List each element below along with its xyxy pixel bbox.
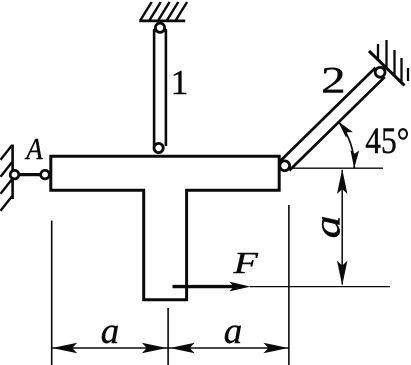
arc arrowhead lower: [350, 150, 359, 168]
svg-text:a: a: [224, 311, 243, 352]
left wall line: [11, 145, 14, 200]
bottom dimension line: [52, 347, 289, 349]
svg-text:F: F: [232, 245, 259, 280]
vertical dim arrow down: [337, 261, 347, 286]
extension line center: [167, 308, 169, 365]
45 degree arc: [338, 121, 354, 168]
svg-text:a: a: [101, 311, 120, 352]
svg-text:2: 2: [321, 61, 346, 102]
link 1 bottom pin: [154, 143, 163, 152]
T-shaped body: [51, 156, 279, 300]
link 2 shaft: [280, 68, 385, 171]
link 2 top pin: [375, 67, 385, 77]
bottom dim arrow center-right: [170, 343, 195, 353]
bottom dim arrow far-right: [263, 343, 288, 353]
pin A body circle: [41, 170, 50, 179]
extension line left: [51, 221, 53, 365]
force F arrow: [173, 285, 239, 288]
link 1 shaft: [154, 29, 166, 146]
bottom dim arrow center-left: [142, 343, 167, 353]
vertical dimension a line: [341, 170, 343, 285]
bottom reference line: [250, 286, 390, 288]
link A bar: [15, 173, 44, 176]
top reference line: [290, 167, 383, 169]
vertical dim arrow up: [337, 169, 347, 194]
link 1 top pin: [155, 23, 164, 32]
svg-text:1: 1: [171, 63, 189, 102]
bottom dim arrow far-left: [52, 343, 77, 353]
inclined wall hatch: [378, 40, 408, 83]
svg-text:a: a: [307, 215, 348, 238]
svg-text:45°: 45°: [365, 121, 409, 162]
pin A wall circle: [10, 170, 19, 179]
arc arrowhead upper: [338, 121, 353, 138]
ceiling line: [139, 19, 185, 22]
svg-text:A: A: [24, 131, 43, 166]
ceiling hatch: [140, 2, 187, 21]
extension line right: [288, 205, 290, 365]
inclined wall line: [369, 51, 405, 86]
link 2 bottom pin: [280, 161, 290, 171]
left wall hatch: [1, 145, 13, 211]
